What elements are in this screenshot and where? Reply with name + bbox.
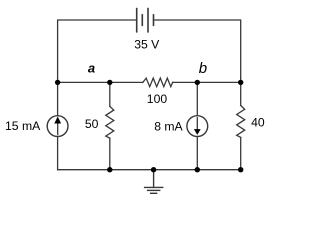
ground xyxy=(145,170,163,194)
junction 8 mA bottom dot xyxy=(195,167,200,172)
svg-text:100: 100 xyxy=(147,92,168,106)
junction 50-ohm bottom dot xyxy=(107,167,112,172)
wire top-right segment xyxy=(154,20,241,105)
junction right riser dot xyxy=(238,80,243,85)
svg-text:35 V: 35 V xyxy=(134,38,160,52)
battery 35 V xyxy=(137,9,154,32)
svg-text:50: 50 xyxy=(85,117,99,131)
junction node b dot xyxy=(195,80,200,85)
junction node a dot xyxy=(55,80,60,85)
wire 50-ohm top stub xyxy=(109,82,111,106)
svg-text:40: 40 xyxy=(251,116,265,130)
svg-text:8 mA: 8 mA xyxy=(154,119,183,133)
wire left riser lower xyxy=(57,137,59,170)
junction bottom-right dot xyxy=(238,167,243,172)
wire bottom xyxy=(58,169,241,171)
wire top-left segment xyxy=(58,20,137,115)
svg-text:a: a xyxy=(88,61,95,76)
svg-text:b: b xyxy=(199,60,207,77)
current source 15 mA xyxy=(47,116,68,137)
resistor 40 xyxy=(237,105,245,137)
svg-text:15 mA: 15 mA xyxy=(5,119,41,133)
resistor 100 xyxy=(143,78,173,87)
wire 8 mA top stub xyxy=(196,82,198,115)
wire right riser lower xyxy=(240,137,242,169)
junction ground dot xyxy=(151,167,156,172)
resistor 50 xyxy=(106,106,114,138)
wire 8 mA bottom stub xyxy=(196,137,198,170)
junction 50-ohm top dot xyxy=(107,80,112,85)
wire middle R100 to b xyxy=(173,81,241,83)
current source 8 mA xyxy=(187,116,208,137)
wire 50-ohm bottom stub xyxy=(109,138,111,170)
wire middle a to R100 xyxy=(58,81,143,83)
